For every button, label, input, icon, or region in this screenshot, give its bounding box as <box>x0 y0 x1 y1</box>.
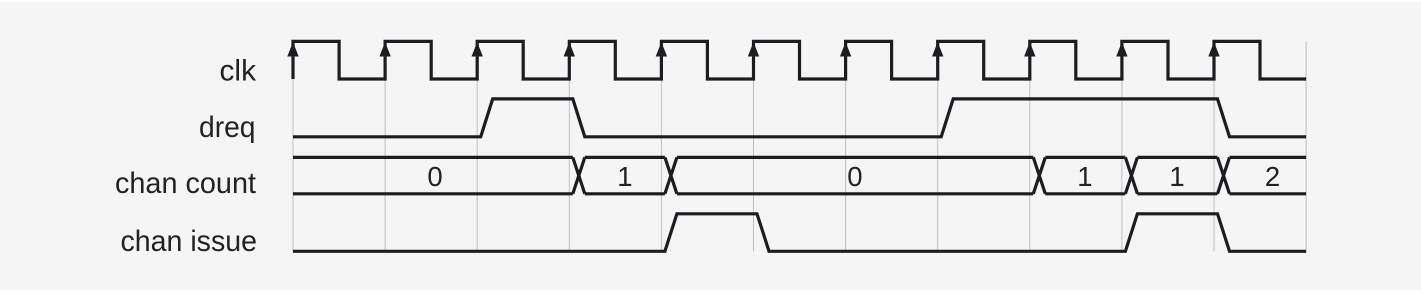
clk rising-edge arrow 6 <box>840 42 851 57</box>
svg-text:1: 1 <box>1077 161 1092 192</box>
clk rising-edge arrow 10 <box>1208 42 1219 57</box>
gridline period boundary 5 <box>753 42 755 252</box>
clk rising-edge arrow 4 <box>656 42 667 57</box>
clk rising-edge arrow 0 <box>287 42 298 57</box>
gridline period boundary 0 <box>292 42 294 252</box>
svg-text:2: 2 <box>1265 161 1280 192</box>
chan issue waveform <box>293 214 1306 252</box>
svg-text:1: 1 <box>617 161 632 192</box>
gridline period boundary 3 <box>568 42 570 252</box>
gridline period boundary 6 <box>845 42 847 252</box>
svg-text:1: 1 <box>1169 161 1184 192</box>
clk rising-edge arrow 5 <box>748 42 759 57</box>
gridline period boundary 1 <box>384 42 386 252</box>
svg-text:clk: clk <box>220 54 257 87</box>
svg-text:dreq: dreq <box>199 111 256 144</box>
clk rising-edge arrow 9 <box>1116 42 1127 57</box>
bus chan count outline <box>293 157 1306 193</box>
gridline period boundary 4 <box>660 42 662 252</box>
clk rising-edge arrow 8 <box>1024 42 1035 57</box>
bus chan count crossings <box>573 157 1230 193</box>
clk rising-edge arrow 7 <box>932 42 943 57</box>
svg-text:0: 0 <box>427 161 442 192</box>
gridline period boundary 9 <box>1121 42 1123 252</box>
gridline period boundary 10 <box>1213 42 1215 252</box>
gridline period boundary 2 <box>476 42 478 252</box>
clk waveform <box>293 41 1306 79</box>
clk rising-edge arrow 1 <box>379 42 390 57</box>
gridline period boundary 11 <box>1305 42 1307 252</box>
dreq waveform <box>293 99 1306 137</box>
gridline period boundary 7 <box>937 42 939 252</box>
svg-text:0: 0 <box>847 161 862 192</box>
svg-text:chan issue: chan issue <box>121 225 258 258</box>
svg-text:chan count: chan count <box>115 167 257 200</box>
clk rising-edge arrow 2 <box>472 42 483 57</box>
clk rising-edge arrow 3 <box>564 42 575 57</box>
gridline period boundary 8 <box>1029 42 1031 252</box>
